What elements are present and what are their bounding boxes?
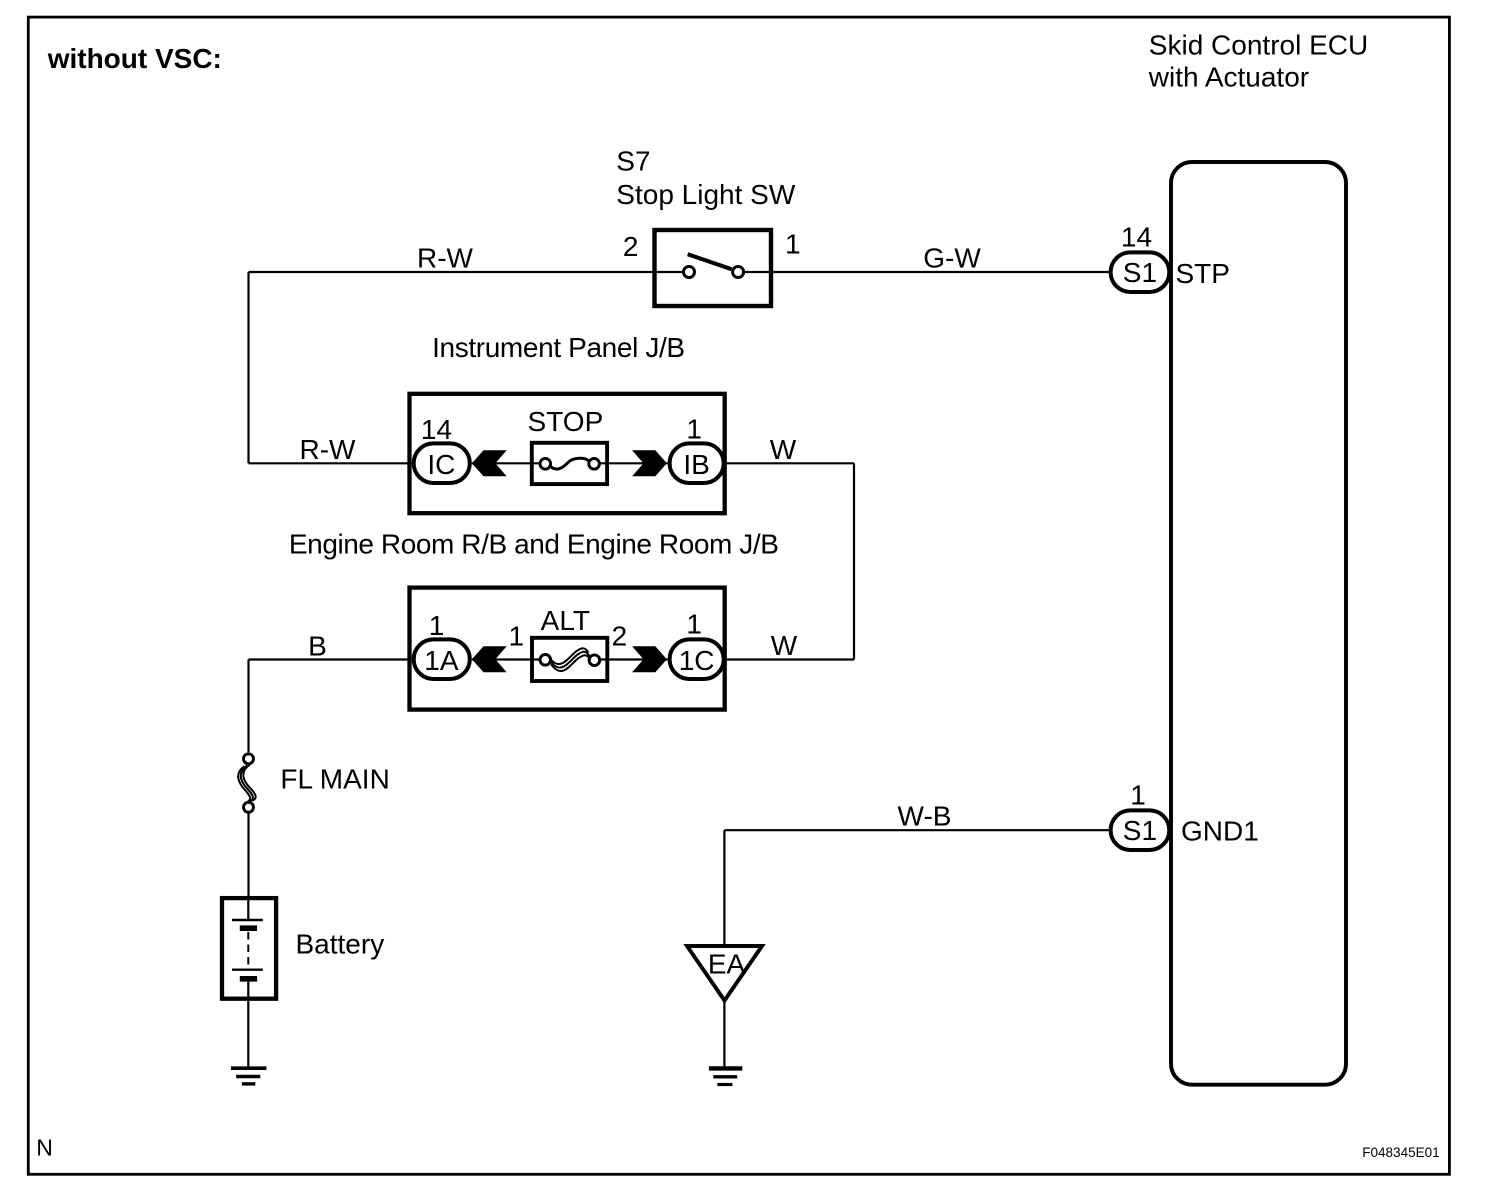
svg-text:S7: S7 <box>616 146 650 177</box>
label S7 Stop Light SW <box>616 146 796 211</box>
fuse STOP <box>532 443 607 484</box>
svg-text:1: 1 <box>429 610 445 641</box>
wire R-W vertical from top wire down to IC <box>249 272 410 463</box>
svg-text:S1: S1 <box>1123 815 1157 846</box>
svg-text:Engine Room R/B and Engine Roo: Engine Room R/B and Engine Room J/B <box>289 529 779 560</box>
fusible link FL MAIN <box>238 754 256 813</box>
connector IC oval <box>414 443 470 483</box>
svg-text:Instrument Panel J/B: Instrument Panel J/B <box>432 332 685 363</box>
battery <box>222 898 276 999</box>
svg-text:W-B: W-B <box>898 801 952 832</box>
svg-text:ALT: ALT <box>541 605 590 636</box>
svg-text:R-W: R-W <box>300 434 357 465</box>
svg-text:FL MAIN: FL MAIN <box>280 764 389 795</box>
svg-text:Stop Light SW: Stop Light SW <box>616 179 796 210</box>
wire inside engine room box from ALT fuse to 1C <box>600 658 667 660</box>
svg-text:2: 2 <box>612 620 628 651</box>
svg-text:without VSC:: without VSC: <box>47 43 222 74</box>
wire W from IB right, down to 1C <box>726 463 854 659</box>
svg-text:1: 1 <box>509 620 525 651</box>
svg-text:B: B <box>308 631 327 662</box>
svg-text:1A: 1A <box>424 645 459 676</box>
svg-text:with Actuator: with Actuator <box>1148 62 1309 93</box>
ground (EA) <box>709 1068 742 1084</box>
svg-text:1C: 1C <box>679 645 715 676</box>
svg-text:STP: STP <box>1176 258 1230 289</box>
arrow left (toward 1A) <box>472 646 507 672</box>
ground point EA triangle <box>687 946 762 1001</box>
junction block Engine Room R/B and J/B box <box>410 588 725 710</box>
connector S1 (STP) oval <box>1111 252 1170 292</box>
ECU Skid Control ECU with Actuator body <box>1171 162 1346 1085</box>
connector IB oval <box>670 443 724 483</box>
svg-text:Battery: Battery <box>296 929 385 960</box>
svg-text:1: 1 <box>686 609 702 640</box>
wire B from node to 1A <box>249 660 410 753</box>
arrow right (toward 1C) <box>632 646 667 672</box>
wire from EA to ground <box>723 1001 725 1067</box>
wire inside J/B from IC to STOP fuse <box>472 462 539 464</box>
switch S7 contacts and lever <box>655 254 772 277</box>
svg-text:14: 14 <box>421 414 452 445</box>
svg-text:F048345E01: F048345E01 <box>1362 1145 1439 1160</box>
arrow left (toward IC) <box>472 450 507 476</box>
svg-text:GND1: GND1 <box>1181 816 1259 847</box>
svg-text:1: 1 <box>785 229 801 260</box>
label Skid Control ECU with Actuator <box>1148 30 1368 93</box>
switch S7 box <box>655 230 772 306</box>
svg-text:S1: S1 <box>1123 257 1157 288</box>
wire R-W from node to stop light switch pin 2 <box>249 271 655 273</box>
svg-text:1: 1 <box>1130 780 1146 811</box>
connector 1A oval <box>414 639 470 679</box>
svg-text:EA: EA <box>708 949 746 980</box>
wire inside J/B from STOP fuse to IB <box>600 462 667 464</box>
fusible link ALT <box>532 638 607 681</box>
wire W-B from EA node to connector S1 (GND1) <box>724 830 1108 944</box>
svg-text:N: N <box>36 1135 53 1161</box>
svg-text:W: W <box>771 630 798 661</box>
connector S1 (GND1) oval <box>1111 810 1170 850</box>
svg-text:R-W: R-W <box>417 243 474 274</box>
svg-text:IC: IC <box>427 449 455 480</box>
wire from battery to ground <box>247 999 249 1067</box>
connector 1C oval <box>670 639 724 679</box>
wire from FL MAIN to battery <box>247 813 249 898</box>
ground (battery) <box>231 1068 267 1084</box>
svg-text:G-W: G-W <box>923 243 981 274</box>
svg-text:1: 1 <box>686 414 702 445</box>
svg-text:W: W <box>770 434 797 465</box>
svg-text:14: 14 <box>1121 222 1152 253</box>
wire inside engine room box from 1A to ALT fuse <box>472 658 539 660</box>
arrow right (toward IB) <box>632 450 667 476</box>
svg-text:2: 2 <box>623 231 639 262</box>
svg-text:STOP: STOP <box>528 406 604 437</box>
wire G-W from switch pin 1 to connector S1 pin 14 <box>771 271 1109 273</box>
svg-text:IB: IB <box>683 449 709 480</box>
svg-text:Skid Control ECU: Skid Control ECU <box>1149 30 1368 61</box>
junction block Instrument Panel J/B box <box>410 394 725 513</box>
